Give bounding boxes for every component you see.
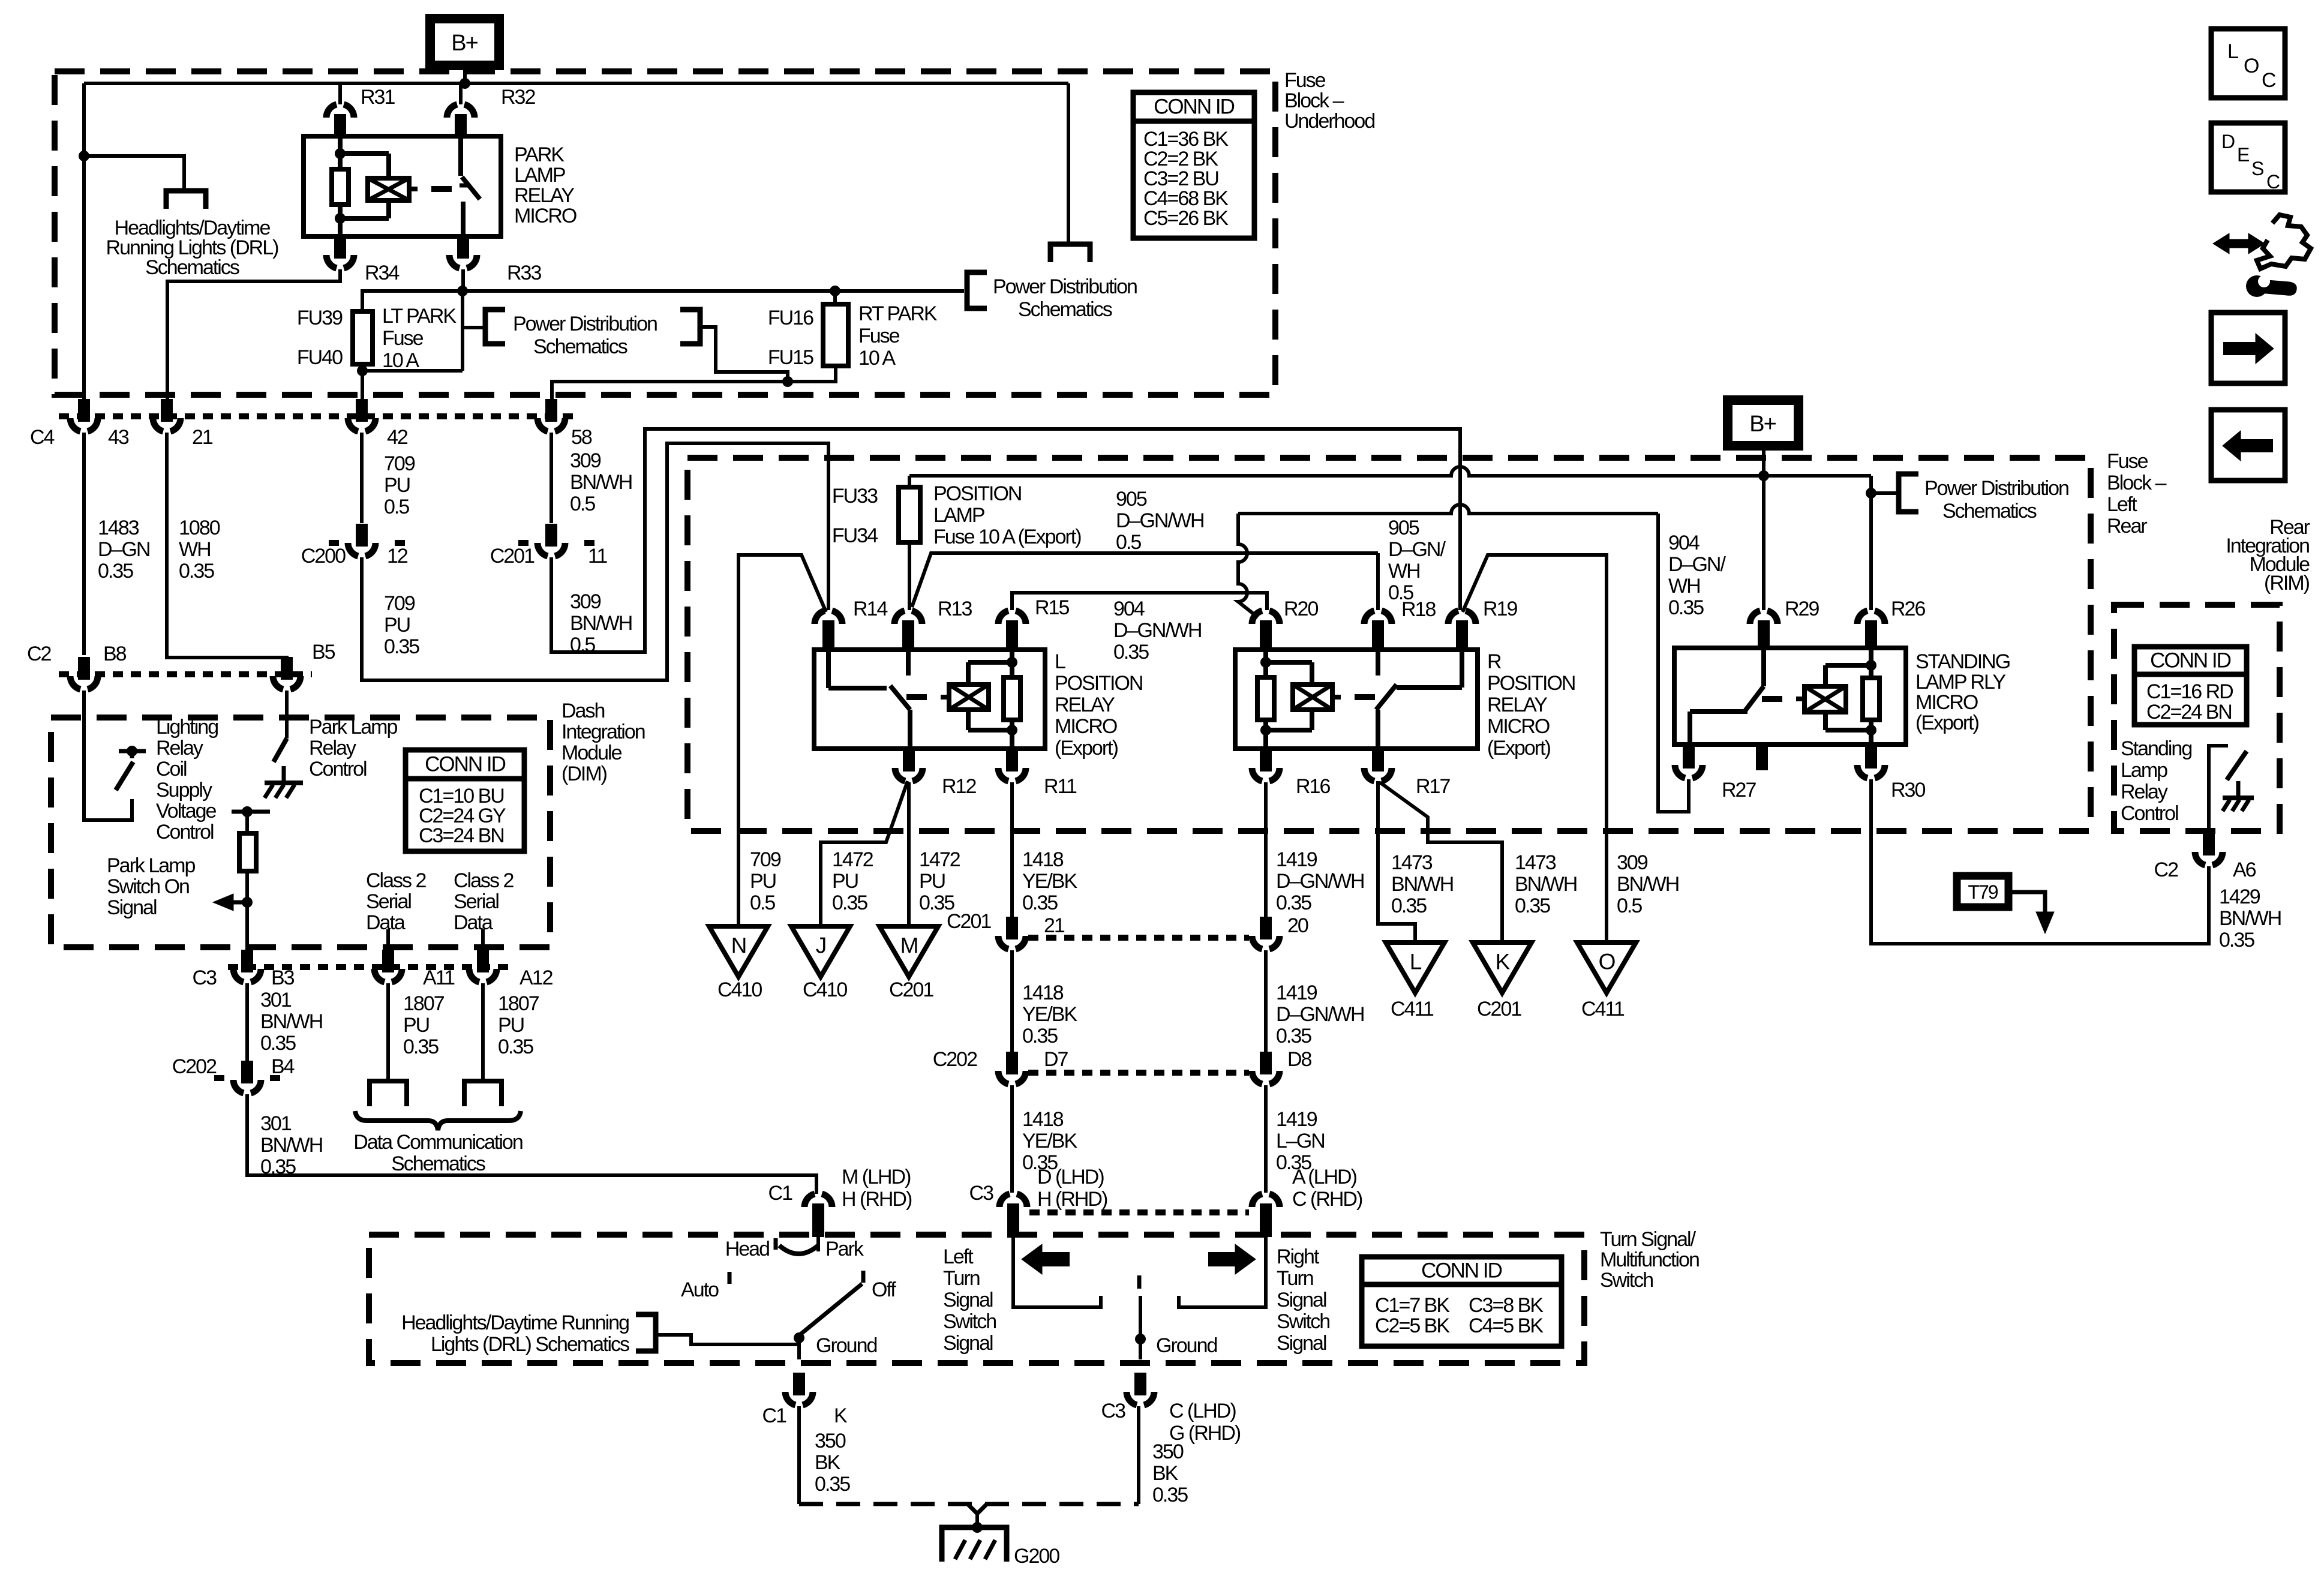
- wire: R34 to fuse block pin 21: [167, 269, 340, 399]
- svg-text:C2: C2: [27, 643, 52, 665]
- svg-text:Left: Left: [943, 1245, 974, 1268]
- connector pin R18: [1364, 611, 1374, 624]
- svg-text:0.35: 0.35: [179, 560, 214, 583]
- bracket [ Power Distribution Schematics (left rear): [1899, 474, 1918, 512]
- wire 309 BN/WH 0.5 (pin 58 to C201-11): [550, 433, 553, 523]
- svg-text:(RIM): (RIM): [2264, 572, 2310, 595]
- connector pin R30: [1865, 745, 1877, 769]
- svg-text:D–GN: D–GN: [98, 538, 149, 561]
- connector row C4 (dotted): [59, 413, 573, 419]
- svg-text:10 A: 10 A: [382, 349, 419, 372]
- svg-text:WH: WH: [179, 538, 211, 561]
- wire 709 PU to N takeoff and R14 splice: [738, 555, 826, 926]
- svg-text:1419: 1419: [1276, 981, 1317, 1004]
- svg-text:PU: PU: [832, 870, 858, 893]
- relay K1 internal: coil with X: [340, 151, 389, 156]
- svg-text:FU40: FU40: [297, 346, 343, 369]
- wire: 309 bus drop to R19: [1458, 429, 1462, 610]
- svg-text:E: E: [2237, 144, 2249, 166]
- svg-text:1429: 1429: [2219, 885, 2260, 908]
- dashed box: Rear Integration Module (RIM): [2114, 605, 2280, 831]
- connector pin R12: [903, 749, 915, 772]
- svg-text:Fuse: Fuse: [2107, 450, 2148, 473]
- svg-text:0.35: 0.35: [1152, 1484, 1188, 1506]
- wire 1473: R17 to L takeoff: [1378, 781, 1415, 942]
- svg-text:Signal: Signal: [1277, 1289, 1326, 1311]
- svg-text:Relay: Relay: [2121, 781, 2168, 803]
- connector pin B4 (C202): [214, 1075, 224, 1081]
- wire 1483 D-GN (pin 43 to B8): [82, 433, 86, 655]
- CONN ID table (RIM): [2134, 647, 2247, 725]
- ground G200 symbol: [942, 1527, 1007, 1562]
- connector pin B3 (C3): [241, 950, 253, 972]
- svg-text:Voltage: Voltage: [156, 800, 217, 822]
- svg-text:PU: PU: [919, 870, 945, 893]
- wire: R19 splice to O triangle run: [1463, 555, 1607, 942]
- node: FU40 output junction: [357, 365, 368, 376]
- svg-text:58: 58: [571, 426, 592, 449]
- svg-text:Module: Module: [562, 742, 622, 764]
- svg-text:POSITION: POSITION: [1487, 672, 1575, 695]
- takeoff triangle O: [1577, 942, 1636, 993]
- svg-text:BK: BK: [815, 1451, 841, 1474]
- stub + reference: Headlights/Daytime Running Lights (DRL) Schematics (top left): [79, 151, 89, 161]
- svg-text:(Export): (Export): [1055, 737, 1118, 760]
- svg-text:R15: R15: [1035, 596, 1069, 619]
- svg-text:R18: R18: [1401, 598, 1436, 621]
- svg-text:FU15: FU15: [768, 346, 813, 369]
- svg-text:Data Communication: Data Communication: [353, 1131, 523, 1154]
- wire: DRL reference into headlamp switch: [656, 1335, 799, 1344]
- svg-text:Park: Park: [825, 1238, 864, 1260]
- wire: R33 junction down to RT-park output tie: [461, 291, 464, 371]
- icon: Lighting Relay Coil Supply Voltage Control driver: [127, 746, 137, 757]
- wire: R32 pin feed: [459, 83, 463, 104]
- node: RT PARK fuse top junction: [830, 286, 840, 296]
- svg-text:C3: C3: [969, 1182, 994, 1205]
- wire: R31 pin feed: [338, 83, 342, 104]
- connector pin R13: [894, 611, 905, 624]
- wire 709 PU 0.5 (pin 42 to C200): [360, 433, 364, 523]
- svg-text:301: 301: [260, 1112, 292, 1135]
- svg-text:C410: C410: [803, 978, 847, 1001]
- connector row C3/B3-A11-A12 (dotted): [228, 964, 510, 970]
- svg-text:0.35: 0.35: [260, 1032, 296, 1055]
- wire: 905 corner down to R18: [1376, 553, 1380, 610]
- svg-text:C: C: [2266, 171, 2280, 193]
- fuse FU16/FU15 RT PARK: [833, 291, 837, 304]
- connector pin D/H (C3 turn switch): [999, 1194, 1010, 1207]
- svg-text:O: O: [1599, 950, 1616, 974]
- connector row C2 (dotted): [59, 671, 312, 677]
- svg-text:STANDING: STANDING: [1915, 650, 2010, 673]
- svg-text:0.35: 0.35: [1276, 1025, 1311, 1047]
- node: R33 output junction: [457, 286, 468, 296]
- brace: data communication group: [355, 1111, 521, 1130]
- connector pin D8 (C202 mid): [1260, 1052, 1272, 1074]
- dashed box: Dash Integration Module (DIM): [51, 718, 550, 947]
- svg-text:0.35: 0.35: [1391, 894, 1427, 917]
- svg-text:R27: R27: [1722, 779, 1756, 801]
- bracket [ Power Distribution Schematics (underhood left): [485, 310, 505, 344]
- svg-text:O: O: [2244, 55, 2259, 77]
- svg-text:PU: PU: [384, 474, 410, 497]
- svg-text:RELAY: RELAY: [1055, 694, 1115, 716]
- icon box left-arrow: [2211, 410, 2285, 481]
- svg-text:10 A: 10 A: [858, 347, 896, 370]
- relay K1 internal: resistor branch: [338, 136, 343, 154]
- svg-text:0.35: 0.35: [384, 635, 419, 658]
- icon: headlamp switch Head/Park wiper: [816, 1237, 820, 1251]
- svg-text:0.35: 0.35: [498, 1035, 533, 1058]
- svg-text:0.35: 0.35: [815, 1473, 850, 1496]
- svg-text:309: 309: [570, 590, 601, 613]
- wire 1472 PU: R12 to J takeoff: [821, 781, 908, 926]
- connector pin R26: [1857, 611, 1867, 624]
- connector pin R34: [334, 236, 346, 259]
- svg-text:WH: WH: [1388, 560, 1420, 583]
- wire 709 PU 0.35 (C200-12 toward L relay R14): [362, 443, 828, 680]
- svg-text:350: 350: [815, 1430, 846, 1452]
- svg-text:Signal: Signal: [943, 1289, 993, 1311]
- svg-text:FU34: FU34: [832, 524, 878, 547]
- svg-text:Dash: Dash: [562, 700, 604, 722]
- svg-text:D–GN/WH: D–GN/WH: [1276, 1003, 1364, 1026]
- svg-text:POSITION: POSITION: [1055, 672, 1142, 695]
- wire: B+ feed to top bus: [463, 65, 467, 83]
- takeoff triangle M: [879, 926, 938, 977]
- connector pin B5 (C2): [281, 657, 293, 680]
- svg-text:C3=8 BK: C3=8 BK: [1469, 1294, 1544, 1317]
- relay K1 internal: mech link dash: [431, 186, 452, 192]
- page connector: data communication (A12): [464, 1081, 502, 1106]
- svg-text:Park Lamp: Park Lamp: [309, 716, 397, 739]
- svg-text:R33: R33: [507, 262, 541, 284]
- svg-text:0.35: 0.35: [1022, 891, 1058, 914]
- connector pin 42 (C4): [356, 399, 368, 422]
- connector pin R32: [447, 104, 457, 118]
- svg-text:Ground: Ground: [1156, 1334, 1217, 1357]
- svg-text:(Export): (Export): [1487, 737, 1551, 760]
- svg-text:1419: 1419: [1276, 848, 1317, 871]
- svg-text:A (LHD): A (LHD): [1292, 1166, 1357, 1188]
- bracket stub (left rear PDS): [1871, 491, 1899, 495]
- svg-text:Class 2: Class 2: [366, 869, 426, 892]
- svg-text:C1=16 RD: C1=16 RD: [2146, 680, 2233, 703]
- svg-text:B8: B8: [103, 643, 127, 665]
- svg-text:43: 43: [108, 426, 129, 449]
- connector pin R33: [457, 236, 469, 259]
- svg-text:Schematics: Schematics: [391, 1152, 485, 1175]
- svg-text:0.5: 0.5: [570, 493, 595, 515]
- icon: Park Lamp Relay Control switch: [274, 739, 287, 762]
- icon box DESC: [2211, 123, 2285, 192]
- wire: bus corner down to R26: [1869, 476, 1873, 610]
- svg-text:B+: B+: [451, 31, 478, 56]
- svg-text:K: K: [834, 1404, 848, 1427]
- svg-text:350: 350: [1152, 1440, 1184, 1463]
- takeoff triangle N: [709, 926, 768, 977]
- svg-text:Serial: Serial: [366, 890, 411, 913]
- bracket [ Power Distribution Schematics (underhood right): [967, 272, 987, 308]
- node: jog joins RT PARK output wire: [782, 376, 793, 387]
- svg-text:CONN ID: CONN ID: [1421, 1259, 1502, 1283]
- svg-text:RELAY: RELAY: [514, 184, 574, 207]
- svg-text:Ground: Ground: [816, 1334, 876, 1357]
- wire: LT PARK fuse output: [361, 364, 364, 371]
- svg-text:D–GN/WH: D–GN/WH: [1116, 509, 1204, 532]
- svg-text:R31: R31: [361, 86, 395, 109]
- dotted row C3 (bottom): [1029, 1209, 1249, 1215]
- wire 1418 YE/BK: D7 to turn signal switch: [1010, 1085, 1014, 1193]
- node: headlamp switch ground: [794, 1332, 804, 1343]
- svg-text:C1: C1: [762, 1404, 787, 1427]
- svg-text:Relay: Relay: [309, 737, 356, 760]
- svg-text:0.35: 0.35: [1276, 891, 1311, 914]
- page connector: data communication (A11): [370, 1081, 407, 1106]
- svg-text:Signal: Signal: [1277, 1332, 1326, 1355]
- wire: park lamp switch signal to C3-B3: [245, 902, 249, 951]
- node: park lamp switch rail: [242, 806, 253, 817]
- wire: B+ to R29: [1762, 476, 1765, 610]
- svg-text:BN/WH: BN/WH: [1391, 873, 1453, 896]
- svg-text:C411: C411: [1581, 998, 1625, 1020]
- svg-text:YE/BK: YE/BK: [1022, 1130, 1077, 1152]
- svg-text:0.35: 0.35: [1668, 596, 1704, 619]
- svg-text:PU: PU: [384, 614, 410, 637]
- svg-text:R12: R12: [942, 775, 976, 798]
- svg-text:Power Distribution: Power Distribution: [513, 313, 657, 335]
- svg-text:J: J: [816, 933, 826, 958]
- svg-text:C: C: [2262, 69, 2276, 92]
- svg-text:R14: R14: [853, 598, 887, 620]
- icon box LOC: [2211, 29, 2285, 98]
- svg-text:Turn: Turn: [943, 1267, 980, 1290]
- svg-text:Fuse: Fuse: [858, 325, 900, 347]
- svg-text:L: L: [1055, 650, 1065, 673]
- svg-text:D7: D7: [1044, 1048, 1068, 1071]
- svg-text:CONN ID: CONN ID: [2150, 649, 2231, 673]
- svg-text:Fuse 10 A (Export): Fuse 10 A (Export): [933, 526, 1081, 548]
- svg-text:BN/WH: BN/WH: [260, 1134, 322, 1157]
- svg-text:C2: C2: [2154, 858, 2179, 881]
- svg-text:R20: R20: [1284, 598, 1318, 620]
- ground symbol (RIM internal): [2236, 781, 2241, 798]
- svg-text:Park Lamp: Park Lamp: [107, 854, 195, 877]
- relay K2 internal: switch: [826, 650, 831, 688]
- relay K4 internal: resistor: [1863, 678, 1879, 720]
- dashed box: Fuse Block - Left Rear: [687, 458, 2091, 831]
- connector pin 21 (C4): [161, 399, 173, 422]
- svg-text:Schematics: Schematics: [145, 256, 239, 279]
- connector pin 58 (C4): [545, 399, 557, 422]
- svg-text:0.35: 0.35: [403, 1035, 439, 1058]
- svg-text:C (RHD): C (RHD): [1292, 1188, 1362, 1211]
- svg-text:Block –: Block –: [2107, 472, 2167, 494]
- svg-text:Turn Signal/: Turn Signal/: [1600, 1228, 1697, 1251]
- svg-text:C3=24 BN: C3=24 BN: [419, 824, 504, 847]
- node: B+ left rear junction: [1758, 470, 1769, 481]
- svg-text:R17: R17: [1416, 775, 1450, 798]
- svg-text:R11: R11: [1044, 775, 1077, 798]
- svg-text:0.35: 0.35: [2219, 929, 2254, 951]
- svg-text:709: 709: [384, 592, 415, 615]
- svg-text:CONN ID: CONN ID: [1154, 95, 1235, 119]
- svg-text:C201: C201: [1477, 998, 1521, 1020]
- ground splice dip to G200: [968, 1504, 987, 1514]
- relay K4 internal: mech link dash: [1762, 696, 1782, 702]
- wire: B5 into DIM to park lamp relay control switch: [285, 691, 289, 739]
- arrow: T79 takeoff pointer: [2008, 892, 2045, 913]
- svg-text:D–GN/WH: D–GN/WH: [1276, 870, 1364, 893]
- svg-text:1418: 1418: [1022, 1108, 1064, 1131]
- relay K3: R POSITION RELAY MICRO box: [1235, 650, 1478, 749]
- svg-text:BN/WH: BN/WH: [570, 471, 632, 494]
- connector pin 20 (C201 mid): [1260, 917, 1272, 939]
- takeoff triangle K: [1473, 942, 1532, 993]
- fuse FU39/FU40 LT PARK: [353, 311, 373, 364]
- svg-text:Control: Control: [309, 758, 367, 781]
- svg-text:Fuse: Fuse: [382, 327, 424, 350]
- svg-text:C4: C4: [30, 426, 55, 449]
- svg-text:A11: A11: [423, 966, 455, 989]
- wire 1429 BN/WH: A6 to R30: [1871, 779, 2209, 944]
- wire 1472 PU: R12 to M takeoff: [907, 782, 911, 926]
- connector pin A11: [382, 950, 394, 972]
- svg-text:Schematics: Schematics: [533, 335, 627, 358]
- svg-text:12: 12: [387, 545, 408, 568]
- svg-text:PARK: PARK: [514, 143, 565, 166]
- svg-text:R26: R26: [1891, 598, 1925, 620]
- connector pin A12: [477, 950, 489, 972]
- svg-text:MICRO: MICRO: [1915, 691, 1978, 714]
- svg-text:PU: PU: [750, 870, 776, 893]
- svg-text:904: 904: [1113, 598, 1145, 620]
- CONN ID table (DIM): [406, 750, 524, 851]
- reference box T79: [1957, 876, 2008, 907]
- svg-text:BN/WH: BN/WH: [570, 612, 632, 635]
- svg-text:C202: C202: [172, 1055, 217, 1078]
- svg-text:1473: 1473: [1391, 851, 1433, 874]
- svg-text:Integration: Integration: [562, 721, 645, 743]
- connector pin R16: [1260, 749, 1272, 772]
- svg-text:905: 905: [1388, 517, 1419, 539]
- dashed box: Fuse Block - Underhood: [55, 71, 1275, 395]
- svg-text:C200: C200: [301, 545, 346, 568]
- icon: Standing Lamp Relay Control switch: [2209, 746, 2228, 833]
- wire 1418 YE/BK: R11 to C201-21: [1010, 782, 1014, 921]
- relay K3 internal: switch: [1376, 650, 1380, 676]
- wire: right turn contact: [1179, 1237, 1266, 1307]
- dotted row C202 (D7-D8): [1028, 1070, 1249, 1076]
- svg-text:Right: Right: [1277, 1245, 1320, 1268]
- relay K3 internal: coil with X: [1266, 660, 1312, 665]
- svg-text:1807: 1807: [498, 992, 539, 1015]
- svg-text:0.35: 0.35: [832, 891, 867, 914]
- svg-text:Data: Data: [366, 911, 406, 934]
- svg-text:Serial: Serial: [454, 890, 499, 913]
- power symbol B+ (underhood): [430, 19, 499, 65]
- svg-text:R30: R30: [1891, 779, 1925, 801]
- svg-text:C1=7 BK: C1=7 BK: [1375, 1294, 1450, 1317]
- svg-text:0.5: 0.5: [750, 891, 775, 914]
- svg-text:Switch: Switch: [1277, 1310, 1329, 1333]
- svg-text:21: 21: [1044, 914, 1065, 937]
- wire 309 BN/WH loop (C201-11 to R19): [551, 429, 1460, 652]
- wire 904: R27 up to upper run: [1658, 514, 1689, 812]
- svg-text:R16: R16: [1296, 775, 1330, 798]
- page connector: Power Distribution Schematics (top): [1050, 244, 1090, 262]
- svg-text:BN/WH: BN/WH: [2219, 907, 2281, 930]
- svg-text:D–GN/: D–GN/: [1388, 538, 1446, 561]
- svg-text:Signal: Signal: [943, 1332, 993, 1355]
- connector pin R20: [1252, 611, 1262, 624]
- svg-text:B4: B4: [271, 1055, 295, 1078]
- connector pin 11 (C201): [518, 540, 529, 546]
- wire: top bus drop to page connector: [1067, 83, 1070, 244]
- svg-text:C1: C1: [768, 1182, 793, 1205]
- wire: A12 to data comm: [481, 983, 485, 1081]
- svg-text:R32: R32: [501, 86, 535, 109]
- wire: B8 into DIM to driver icon: [84, 691, 132, 820]
- svg-text:C4=5 BK: C4=5 BK: [1469, 1314, 1544, 1337]
- svg-text:MICRO: MICRO: [1055, 715, 1117, 738]
- svg-text:Switch On: Switch On: [107, 875, 189, 898]
- relay K2: L POSITION RELAY MICRO box: [814, 650, 1045, 749]
- svg-text:H (RHD): H (RHD): [842, 1188, 912, 1211]
- svg-text:LAMP: LAMP: [933, 504, 984, 527]
- wire: B+ (left rear) down to bus: [1762, 446, 1765, 476]
- wire 1419 D-GN/WH: R16 to C201-20: [1264, 782, 1268, 921]
- node + arrow: Park Lamp Switch On Signal: [242, 897, 253, 908]
- relay K4 internal: coil with X: [1869, 648, 1873, 665]
- svg-text:Standing: Standing: [2121, 737, 2191, 760]
- svg-text:C410: C410: [717, 978, 762, 1001]
- svg-text:A6: A6: [2233, 858, 2256, 881]
- svg-text:M: M: [900, 933, 918, 958]
- resistor (DIM park lamp switch pull-up): [245, 812, 249, 833]
- svg-text:FU33: FU33: [832, 485, 878, 508]
- relay K2 internal: resistor: [1004, 677, 1020, 720]
- connector pin R14: [815, 611, 825, 624]
- wire: R33 bus to RT PARK fuse and power distribution ref: [463, 289, 964, 293]
- svg-text:20: 20: [1287, 914, 1308, 937]
- svg-text:K: K: [1496, 950, 1511, 974]
- svg-text:POSITION: POSITION: [933, 482, 1021, 505]
- wire: top bus (B+ to relay pins and power distribution): [84, 82, 1068, 85]
- svg-text:G200: G200: [1014, 1545, 1059, 1568]
- svg-text:WH: WH: [1668, 575, 1700, 598]
- relay K1: PARK LAMP RELAY MICRO box: [304, 136, 501, 236]
- svg-text:Class 2: Class 2: [454, 869, 514, 892]
- connector pin R29: [1750, 611, 1760, 624]
- svg-text:B3: B3: [271, 966, 295, 989]
- svg-text:Coil: Coil: [156, 758, 187, 781]
- svg-text:L: L: [2227, 40, 2238, 63]
- connector pin R15: [998, 611, 1008, 624]
- svg-text:301: 301: [260, 989, 292, 1011]
- svg-text:1419: 1419: [1276, 1108, 1317, 1131]
- svg-text:C411: C411: [1391, 998, 1434, 1020]
- wire 350 BK to G200 (right): [1137, 1406, 1140, 1504]
- svg-text:LAMP RLY: LAMP RLY: [1915, 671, 2005, 694]
- svg-text:Power Distribution: Power Distribution: [993, 275, 1137, 298]
- svg-text:Fuse: Fuse: [1284, 69, 1326, 92]
- svg-text:309: 309: [570, 449, 601, 472]
- wire: class 2 stub A12: [481, 929, 485, 950]
- svg-text:D8: D8: [1287, 1048, 1312, 1071]
- wire: RT PARK fuse output to pin 58: [552, 366, 836, 399]
